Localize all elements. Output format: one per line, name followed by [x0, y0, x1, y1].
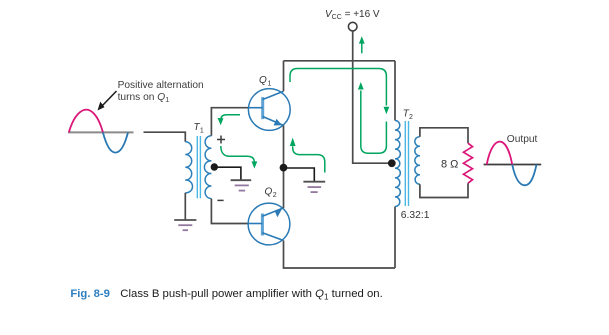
output sine axis [484, 164, 542, 166]
transistor Q2 [248, 203, 290, 245]
wire T1 secondary top to Q1 base [211, 108, 248, 136]
svg-text:2: 2 [273, 192, 277, 199]
right rail wire down to T2 primary [394, 61, 396, 121]
wire T1 primary to ground [184, 193, 186, 220]
transformer T1 secondary winding [204, 136, 211, 199]
load resistor 8 ohm (zigzag) [464, 143, 473, 183]
wire bottom rail up to T2 primary bottom [394, 207, 396, 269]
svg-text:Class B push-pull power amplif: Class B push-pull power amplifier with Q… [120, 288, 382, 302]
input sine positive alternation (pink) [69, 110, 103, 133]
wire load to T2 secondary (bottom) [420, 183, 468, 197]
wire T1 secondary bottom to Q2 base [211, 199, 248, 224]
transistor Q1 [248, 89, 290, 131]
wire node to ground [284, 168, 315, 182]
transformer T2 primary winding [395, 121, 400, 207]
transformer T2 secondary winding [415, 137, 420, 185]
wire Q1 collector up to top rail [283, 61, 285, 91]
wire Q1 emitter to node [283, 125, 285, 168]
green return loop with up arrow [358, 82, 387, 153]
transformer T1 primary winding [185, 142, 192, 193]
svg-text:turns on Q1: turns on Q1 [118, 92, 170, 104]
green arrow at Q1 base [218, 115, 241, 125]
ground (emitter node) [303, 182, 325, 192]
center tap node dot T1 [211, 163, 218, 170]
wire Q2 collector to bottom rail [284, 240, 396, 268]
svg-text:6.32:1: 6.32:1 [401, 210, 430, 221]
top rail wire [284, 60, 396, 62]
transformer T1 core [197, 136, 200, 198]
green arrow from + terminal [221, 146, 257, 169]
svg-text:Positive alternation: Positive alternation [118, 80, 204, 91]
green arrow into Vcc [359, 36, 365, 53]
wire T2 secondary to load (top) [420, 128, 468, 143]
Vcc terminal [348, 22, 357, 31]
input sine negative alternation (blue) [103, 132, 128, 152]
green current loop (Q1 collector to T2 top half) [290, 69, 389, 115]
svg-text:VCC = +16 V: VCC = +16 V [325, 9, 380, 21]
svg-text:Q: Q [265, 186, 273, 197]
svg-text:1: 1 [268, 81, 272, 88]
minus label [217, 199, 223, 201]
svg-text:Fig. 8-9: Fig. 8-9 [70, 288, 110, 300]
output sine negative (blue) [512, 165, 536, 186]
green arrow into emitter node [290, 138, 325, 173]
plus label [217, 136, 225, 144]
wire Vcc to T2 center tap [353, 31, 392, 163]
output sine positive (pink) [487, 142, 513, 165]
svg-text:2: 2 [409, 114, 413, 121]
wire center tap to ground [214, 167, 241, 180]
wire input to T1 [144, 132, 186, 142]
transformer T2 core [405, 121, 408, 206]
ground (T1 center tap) [231, 180, 252, 190]
annotation arrow [102, 91, 117, 107]
input sine axis [68, 131, 134, 133]
svg-text:Q: Q [259, 75, 267, 86]
svg-text:Output: Output [507, 134, 538, 145]
svg-text:8 Ω: 8 Ω [441, 159, 458, 171]
T2 center tap dot [388, 159, 396, 167]
emitter node dot [280, 164, 288, 172]
ground (T1 primary) [174, 220, 196, 230]
svg-text:1: 1 [200, 128, 204, 135]
wire node to Q2 emitter [283, 168, 285, 208]
